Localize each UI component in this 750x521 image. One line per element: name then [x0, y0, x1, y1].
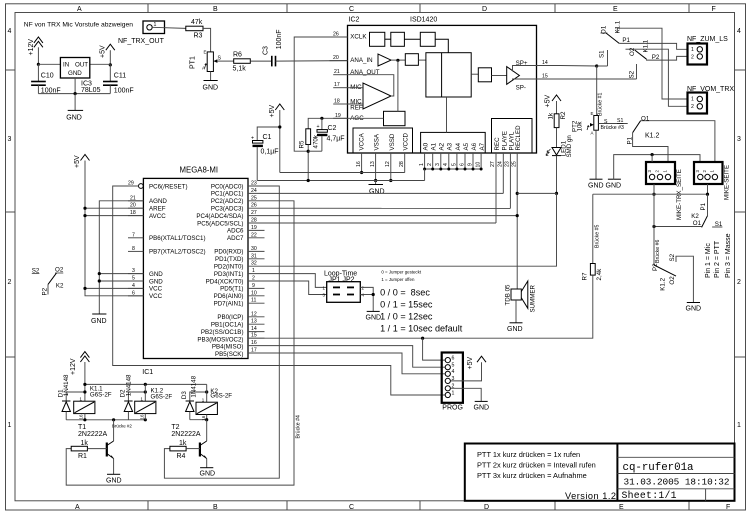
svg-text:+5V: +5V	[269, 105, 276, 118]
svg-text:E: E	[591, 111, 594, 116]
svg-text:AGND: AGND	[149, 198, 167, 205]
svg-text:GND: GND	[66, 115, 82, 122]
svg-text:S2: S2	[669, 253, 676, 261]
svg-text:K1.2: K1.2	[645, 133, 660, 140]
svg-text:TDB 05: TDB 05	[505, 284, 512, 306]
capacitor C1 polarized	[251, 127, 280, 181]
svg-text:5: 5	[451, 163, 457, 166]
svg-text:PTT 3x kurz drücken = Aufnahme: PTT 3x kurz drücken = Aufnahme	[477, 471, 587, 480]
svg-text:3: 3	[737, 136, 741, 143]
supply +5V for R2	[545, 95, 562, 114]
wire K1.1a O1 to NF_VOM_TRX pin1	[617, 28, 687, 99]
svg-text:GND: GND	[474, 405, 490, 412]
svg-text:C1: C1	[263, 134, 272, 141]
svg-text:NF_VOM_TRX: NF_VOM_TRX	[687, 86, 734, 93]
capacitor C2 polarized	[308, 118, 344, 151]
svg-text:100nF: 100nF	[114, 87, 134, 94]
svg-text:1k: 1k	[179, 440, 187, 447]
wire GND rail under IC2	[257, 180, 424, 182]
ic2 sub box A0-A7	[421, 97, 486, 153]
svg-text:NF_ZUM_LS: NF_ZUM_LS	[687, 36, 728, 43]
svg-text:27: 27	[490, 161, 496, 167]
svg-text:C3: C3	[263, 46, 270, 55]
svg-text:7: 7	[132, 232, 135, 238]
wire RESET to PROG pin1	[113, 186, 446, 395]
wire PC2 to T1 driver (Bruecke #4)	[66, 201, 294, 485]
led LED1	[546, 135, 573, 195]
svg-text:E: E	[204, 50, 207, 55]
svg-text:14: 14	[251, 326, 257, 332]
svg-text:19: 19	[251, 225, 257, 231]
svg-text:ADC6: ADC6	[227, 228, 244, 235]
svg-text:cq-rufer01a: cq-rufer01a	[623, 462, 695, 474]
pin 13 VSSA	[370, 153, 377, 182]
ic2 internal input buffer	[378, 54, 426, 66]
svg-text:PC0(ADC0): PC0(ADC0)	[211, 183, 244, 190]
svg-text:O1: O1	[641, 115, 650, 122]
pin 27 REC	[490, 153, 496, 223]
svg-text:28: 28	[251, 218, 257, 224]
potentiometer PT1	[190, 50, 222, 72]
svg-text:S: S	[218, 56, 222, 62]
svg-text:AREF: AREF	[149, 206, 166, 213]
node SP+ junction	[595, 64, 598, 67]
ic2 internal xclk filter squares	[370, 32, 449, 52]
capacitor C3	[263, 29, 284, 66]
pin 17 MIC	[333, 82, 362, 91]
title block border	[465, 444, 735, 501]
svg-text:24: 24	[498, 161, 504, 167]
svg-text:R1: R1	[78, 453, 87, 460]
pins A0-A7 stubs and numbers	[425, 153, 482, 169]
wire PC1 row	[265, 192, 504, 194]
svg-text:4: 4	[8, 28, 12, 35]
svg-text:P2: P2	[42, 287, 49, 295]
diode D1 1N4148	[58, 374, 87, 420]
relay coil K1.1	[74, 385, 112, 419]
ic2 internal agc block	[348, 60, 406, 125]
node +5V junction	[109, 63, 112, 66]
svg-text:GND: GND	[91, 318, 107, 325]
diode D2 1N4148	[120, 374, 147, 420]
text loop time options	[380, 287, 463, 333]
svg-text:MIKE-SEITE: MIKE-SEITE	[724, 165, 731, 200]
pin 28 VCCD	[399, 153, 405, 173]
supply +5V left of mega8	[74, 155, 90, 210]
pin 20 ANA_IN	[330, 55, 373, 64]
svg-text:10k: 10k	[577, 121, 584, 132]
pin 26 XCLK	[330, 32, 368, 41]
svg-text:PB1(OC1A): PB1(OC1A)	[211, 322, 244, 329]
svg-text:PD5(T1): PD5(T1)	[220, 286, 243, 293]
wire PC5 to REC	[265, 222, 497, 224]
ground left of mega8	[91, 314, 107, 325]
svg-text:PD2(INT0): PD2(INT0)	[214, 264, 244, 271]
svg-text:PC4(ADC4/SDA): PC4(ADC4/SDA)	[196, 213, 243, 220]
wire XCLK routing	[294, 37, 347, 151]
pin 19 AGC	[333, 113, 364, 122]
svg-text:F: F	[712, 6, 716, 13]
frame column letters top	[77, 6, 716, 13]
wire R7 to PB3 row	[248, 275, 593, 338]
wire IC3 GND pin	[74, 78, 76, 94]
connector NF_ZUM_LS	[687, 36, 728, 65]
mega8 right pin names	[196, 183, 244, 358]
svg-text:9: 9	[252, 283, 255, 289]
svg-text:K1.2: K1.2	[660, 277, 667, 290]
wire PC0 to T2 driver	[164, 186, 279, 478]
svg-text:A1: A1	[431, 142, 438, 150]
relay contact K1.2 b (lower right)	[652, 253, 693, 302]
svg-text:1 / 1 = 10sec default: 1 / 1 = 10sec default	[380, 323, 463, 333]
svg-text:E: E	[619, 504, 624, 511]
frame row numbers right	[737, 28, 741, 429]
svg-text:2: 2	[252, 276, 255, 282]
svg-text:VSSD: VSSD	[389, 133, 396, 150]
svg-text:K1.1: K1.1	[615, 20, 622, 33]
svg-text:C2: C2	[328, 125, 337, 132]
svg-text:47k: 47k	[191, 19, 203, 26]
svg-text:PB0(ICP): PB0(ICP)	[217, 314, 243, 321]
wire PT1 wiper to R6	[220, 60, 234, 62]
svg-text:PLAYE: PLAYE	[501, 131, 508, 151]
ground under JP	[366, 311, 382, 321]
svg-text:17: 17	[251, 348, 257, 354]
svg-text:PROG: PROG	[442, 405, 463, 412]
ground under PT1	[203, 72, 219, 92]
ic IC2 ISD1420 body	[348, 17, 537, 154]
svg-text:9: 9	[467, 163, 473, 166]
frame right band ticks	[735, 70, 746, 357]
mega8 right pin numbers	[251, 181, 257, 354]
resistor R5	[299, 129, 320, 182]
jumper block Loop-Time JP1 JP2	[323, 270, 365, 302]
wire PD3 to JP1 pin1	[265, 274, 327, 288]
svg-text:6: 6	[459, 163, 465, 166]
svg-text:1: 1	[8, 422, 12, 429]
svg-text:RECLED: RECLED	[515, 125, 522, 151]
svg-text:2N2222A: 2N2222A	[171, 431, 201, 438]
regulator IC3 78L05	[60, 58, 100, 95]
capacitor C11	[103, 64, 134, 94]
wire K1.1 bottom rail to T1 and Bruecke #2	[66, 418, 147, 428]
svg-text:IC1: IC1	[142, 369, 153, 376]
svg-text:0 / 1 = 15sec: 0 / 1 = 15sec	[380, 299, 433, 309]
svg-text:GND: GND	[149, 278, 163, 285]
mega8 left pin names	[149, 183, 206, 300]
svg-text:18: 18	[334, 99, 340, 105]
svg-text:OUT: OUT	[75, 62, 88, 69]
svg-text:A0: A0	[423, 142, 430, 150]
svg-text:R5: R5	[299, 140, 306, 148]
text pin legend	[705, 233, 732, 278]
svg-text:REF: REF	[350, 105, 363, 112]
svg-text:29: 29	[128, 181, 134, 187]
svg-text:2: 2	[737, 279, 741, 286]
svg-text:A: A	[77, 6, 82, 13]
svg-text:GND: GND	[507, 326, 523, 333]
svg-text:E: E	[613, 6, 618, 13]
pin 15 SP-	[537, 74, 561, 80]
svg-text:XCLK: XCLK	[350, 34, 367, 41]
svg-text:13: 13	[251, 319, 257, 325]
svg-text:VCCA: VCCA	[359, 132, 366, 150]
connector MIKE-SEITE	[694, 162, 731, 200]
frame row numbers left	[8, 28, 12, 429]
wire RECLED to LED	[517, 192, 556, 194]
wire PD2 INT0 to LED net	[265, 193, 557, 266]
svg-text:24: 24	[251, 188, 257, 194]
svg-text:K2: K2	[691, 213, 699, 220]
svg-text:Brücke #2: Brücke #2	[112, 423, 132, 428]
svg-text:GND: GND	[203, 85, 219, 92]
svg-text:100nF: 100nF	[276, 29, 283, 49]
relay contact K2 (right)	[691, 194, 723, 228]
svg-text:+5V: +5V	[467, 357, 474, 370]
svg-text:1: 1	[737, 422, 741, 429]
svg-text:28: 28	[399, 161, 405, 167]
supply +12V for relays	[70, 352, 89, 402]
pin 21 ANA_OUT	[333, 69, 380, 76]
svg-text:O2: O2	[55, 267, 64, 274]
wire PC3 to PLAYL	[265, 207, 511, 209]
svg-text:PC5(ADC5/SCL): PC5(ADC5/SCL)	[197, 220, 243, 227]
wire MIKE-TRX pin3 to gnd line	[651, 155, 653, 162]
svg-text:A3: A3	[447, 142, 454, 150]
svg-text:PB7(XTAL2/TOSC2): PB7(XTAL2/TOSC2)	[149, 249, 206, 256]
svg-text:O2: O2	[669, 276, 676, 285]
relay contact K2 unused (left)	[32, 267, 64, 296]
svg-text:2: 2	[691, 55, 694, 61]
svg-text:O2: O2	[629, 47, 636, 56]
svg-text:27: 27	[251, 210, 257, 216]
svg-text:PD4(XCK/T0): PD4(XCK/T0)	[206, 278, 244, 285]
svg-text:G6S-2F: G6S-2F	[90, 392, 112, 399]
svg-text:D: D	[484, 504, 489, 511]
svg-text:1k: 1k	[81, 440, 89, 447]
pin 18 AVCC	[128, 210, 143, 216]
svg-text:10: 10	[251, 290, 257, 296]
svg-text:MEGA8-MI: MEGA8-MI	[180, 166, 219, 175]
frame left band ticks	[6, 70, 16, 357]
svg-text:A5: A5	[463, 142, 470, 150]
svg-text:PT1: PT1	[190, 56, 197, 69]
svg-text:F: F	[726, 504, 730, 511]
pin 20 AREF	[128, 203, 143, 209]
wire SP+ to contact area	[560, 65, 597, 68]
relay contact K1.2 a	[627, 115, 669, 162]
svg-text:A4: A4	[455, 142, 462, 150]
svg-text:PD7(AIN1): PD7(AIN1)	[214, 301, 244, 308]
svg-text:PB2(SS/OC1B): PB2(SS/OC1B)	[201, 329, 244, 336]
svg-text:PB3(MOSI/OC2): PB3(MOSI/OC2)	[197, 336, 243, 343]
svg-text:10: 10	[476, 162, 482, 168]
svg-text:+12V: +12V	[70, 358, 77, 375]
relay coil K2	[196, 384, 232, 420]
svg-text:Pin 1 = Mic: Pin 1 = Mic	[705, 243, 712, 278]
wire mike bottom link	[593, 184, 709, 196]
connector NF_TRX_OUT	[118, 21, 165, 45]
svg-text:6: 6	[452, 355, 455, 361]
wire K1.1b P2 to NF_ZUM_LS pin2	[647, 56, 688, 60]
wire Bruecke #5 vertical and R7	[593, 194, 601, 263]
svg-text:VCCD: VCCD	[403, 132, 410, 150]
svg-text:1: 1	[691, 47, 694, 53]
svg-text:31.03.2005 18:10:32: 31.03.2005 18:10:32	[624, 477, 730, 488]
ground under summer	[507, 300, 523, 333]
svg-text:+5V: +5V	[100, 45, 107, 58]
wire Bruecke #6 vertical	[654, 184, 661, 265]
ground under IC3	[66, 94, 83, 122]
svg-text:ADC7: ADC7	[227, 235, 244, 242]
svg-text:16: 16	[251, 340, 257, 346]
svg-text:1N4148: 1N4148	[190, 375, 197, 397]
wire PT2 to GND	[595, 130, 597, 179]
wire VCC net left of mega8	[83, 208, 143, 296]
svg-text:VCC: VCC	[149, 286, 163, 293]
svg-text:23: 23	[505, 161, 511, 167]
svg-text:14: 14	[542, 60, 548, 66]
pin 21 AGND	[128, 195, 143, 201]
svg-text:30: 30	[251, 246, 257, 252]
svg-text:11: 11	[251, 298, 256, 304]
wire PB5 SCK to PROG pin4	[265, 353, 446, 374]
svg-text:PC6(/RESET): PC6(/RESET)	[149, 183, 188, 190]
svg-text:A6: A6	[471, 142, 478, 150]
ic2 internal mic amp	[348, 75, 394, 109]
ground second (mike gnd)	[606, 153, 701, 190]
mega8 right pin stubs	[248, 186, 265, 353]
speaker SUMMER	[505, 281, 537, 313]
svg-text:IN: IN	[63, 62, 69, 69]
svg-text:0 / 0 = 8sec: 0 / 0 = 8sec	[380, 287, 430, 297]
svg-text:32: 32	[251, 261, 257, 267]
pin 25 RECLED	[511, 153, 518, 289]
svg-text:GND: GND	[369, 189, 385, 196]
svg-text:8: 8	[132, 246, 135, 252]
svg-text:25: 25	[251, 195, 257, 201]
transistor T1 2N2222A	[78, 420, 114, 475]
svg-text:G6S-2F: G6S-2F	[151, 394, 173, 401]
svg-text:PD6(AIN0): PD6(AIN0)	[214, 293, 244, 300]
resistor R4	[170, 440, 200, 460]
svg-text:0 = Jumper gesteckt: 0 = Jumper gesteckt	[381, 270, 421, 275]
svg-text:R6: R6	[233, 51, 242, 58]
resistor R6	[233, 51, 251, 72]
pin 12 VSSD	[385, 153, 392, 182]
capacitor C10	[31, 64, 61, 94]
wire +12V relay rail	[83, 383, 206, 386]
svg-text:Brücke #4: Brücke #4	[296, 415, 302, 438]
pin 5 GND	[128, 276, 143, 282]
svg-text:K2: K2	[56, 282, 64, 289]
svg-text:12: 12	[251, 311, 257, 317]
svg-text:1k: 1k	[548, 112, 555, 119]
supply +5V at PROG	[450, 356, 486, 381]
svg-text:+: +	[251, 136, 254, 142]
svg-text:G6S-2F: G6S-2F	[210, 393, 232, 400]
svg-text:GND: GND	[606, 183, 622, 190]
frame bottom band ticks	[148, 501, 689, 510]
wire JP right pins to GND	[360, 287, 375, 311]
svg-text:PD1(TXD): PD1(TXD)	[215, 256, 244, 263]
connector MIKE-TRX_SEITE	[646, 162, 683, 220]
svg-text:1: 1	[691, 97, 694, 103]
svg-text:1N4148: 1N4148	[125, 374, 132, 396]
svg-text:25: 25	[511, 161, 517, 167]
wire K1.1b O2 to NF_VOM_TRX pin2	[635, 49, 688, 106]
svg-text:S2: S2	[629, 70, 636, 78]
svg-text:PD3(INT1): PD3(INT1)	[214, 271, 244, 278]
svg-text:15: 15	[542, 74, 548, 80]
ic2 internal memory block	[426, 53, 471, 97]
svg-text:PC1(ADC1): PC1(ADC1)	[211, 191, 244, 198]
pin 4 VCC	[128, 283, 143, 289]
ground under IC2	[369, 181, 385, 196]
svg-text:16: 16	[356, 161, 362, 167]
svg-text:SMD gn: SMD gn	[566, 135, 573, 158]
svg-text:P1: P1	[700, 202, 707, 210]
svg-text:A: A	[75, 504, 80, 511]
svg-text:1: 1	[452, 390, 455, 396]
svg-text:C: C	[349, 6, 354, 13]
wire PD4 to JP pin3	[265, 281, 327, 295]
svg-text:R7: R7	[582, 272, 589, 280]
svg-text:REC: REC	[494, 137, 501, 151]
svg-text:PB6(XTAL1/TOSC1): PB6(XTAL1/TOSC1)	[149, 235, 206, 242]
svg-text:K1.1: K1.1	[643, 39, 650, 52]
svg-text:S1: S1	[599, 50, 606, 58]
resistor R2	[548, 111, 568, 147]
svg-text:GND: GND	[686, 306, 702, 313]
svg-text:PD0(RXD): PD0(RXD)	[214, 249, 243, 256]
svg-text:B: B	[213, 504, 218, 511]
svg-text:C11: C11	[114, 73, 126, 80]
svg-text:C10: C10	[41, 73, 54, 80]
svg-text:GND: GND	[68, 70, 82, 77]
ground under T2	[200, 468, 216, 478]
node +12V junction	[37, 63, 40, 66]
ground for K1.2b S2	[686, 303, 702, 313]
svg-text:PC3(ADC3): PC3(ADC3)	[211, 206, 244, 213]
svg-text:R3: R3	[194, 33, 203, 40]
svg-text:2: 2	[427, 163, 433, 166]
wire AGND GND net left of mega8	[98, 201, 144, 314]
svg-text:Brücke #5: Brücke #5	[595, 225, 601, 248]
ic2 sub box VCCA VSSA VSSD VCCD	[353, 128, 413, 153]
svg-text:23: 23	[251, 181, 257, 187]
connector PROG	[442, 353, 463, 412]
svg-text:Version 1.2: Version 1.2	[565, 491, 616, 501]
svg-text:NF_TRX_OUT: NF_TRX_OUT	[118, 38, 165, 45]
wire IC3 OUT to +5V	[90, 63, 111, 65]
svg-text:16: 16	[79, 414, 84, 419]
wire PC4 to PLAYE	[265, 215, 518, 217]
svg-text:PC2(ADC2): PC2(ADC2)	[211, 198, 244, 205]
wire NF_TRX_OUT to R3	[152, 27, 186, 28]
wire R3 to PT1	[203, 28, 211, 52]
svg-text:21: 21	[334, 69, 340, 75]
ic2 internal output stage	[471, 60, 536, 92]
frame column letters bottom	[75, 504, 730, 511]
svg-text:470k: 470k	[313, 134, 320, 148]
svg-text:PB5(SCK): PB5(SCK)	[215, 351, 244, 358]
svg-text:4: 4	[443, 163, 449, 166]
wire +12V to IC3 IN	[38, 63, 60, 65]
svg-text:ANA_IN: ANA_IN	[350, 57, 372, 64]
svg-text:4,7µF: 4,7µF	[327, 136, 345, 143]
wire Bruecke #1 vertical	[597, 66, 604, 116]
